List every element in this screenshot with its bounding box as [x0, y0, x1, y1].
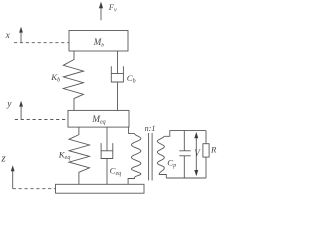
transformer primary winding: [131, 134, 141, 178]
axis y dashed line: [15, 119, 68, 121]
wire bottom of circuit: [166, 177, 206, 179]
svg-text:y: y: [6, 100, 12, 110]
axis z dashed line: [13, 188, 56, 190]
svg-text:Mb: Mb: [93, 37, 105, 48]
svg-text:Ceq: Ceq: [110, 166, 122, 178]
wire primary to base: [128, 177, 134, 184]
wire right branch down to R: [205, 131, 207, 144]
svg-text:Fv: Fv: [108, 2, 117, 14]
force arrow F_v: [99, 2, 103, 21]
svg-text:Meq: Meq: [91, 115, 105, 126]
wire secondary top to circuit: [164, 131, 206, 137]
svg-text:Keq: Keq: [58, 149, 71, 161]
mass M_eq box: [68, 110, 129, 127]
axis y arrow: [19, 101, 23, 120]
svg-text:z: z: [0, 153, 6, 165]
damper C_eq: [101, 127, 113, 184]
wire R bottom: [205, 157, 207, 178]
voltage arrow V: [194, 132, 198, 176]
transformer secondary winding: [157, 136, 164, 174]
svg-text:R: R: [210, 145, 217, 155]
spring K_b: [63, 51, 83, 110]
svg-text:Cp: Cp: [167, 158, 176, 170]
axis x arrow: [19, 27, 23, 43]
wire M_eq to transformer primary: [129, 127, 135, 134]
damper C_b: [111, 51, 123, 110]
spring K_eq: [69, 127, 90, 184]
mass M_b box: [69, 31, 128, 52]
axis x dashed line: [14, 42, 69, 44]
base frame box: [56, 184, 145, 193]
capacitor C_p: [179, 131, 190, 178]
svg-text:n:1: n:1: [145, 124, 156, 133]
svg-text:Kb: Kb: [50, 72, 60, 84]
svg-text:Cb: Cb: [127, 73, 136, 85]
svg-text:x: x: [5, 31, 11, 41]
transformer core: [149, 133, 153, 180]
resistor R box: [203, 144, 209, 157]
wire secondary bottom to circuit: [159, 175, 166, 179]
axis z arrow: [11, 165, 15, 188]
svg-text:V: V: [194, 148, 201, 158]
